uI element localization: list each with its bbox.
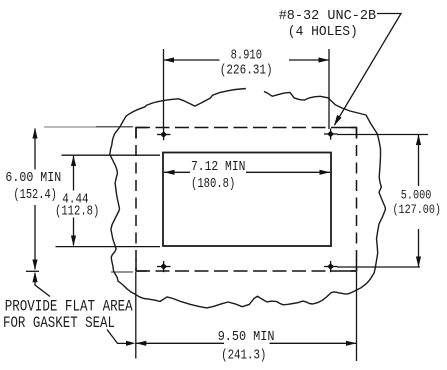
svg-text:(241.3): (241.3) <box>221 348 266 364</box>
svg-text:#8-32 UNC-2B: #8-32 UNC-2B <box>279 8 376 24</box>
svg-text:(112.8): (112.8) <box>55 204 99 220</box>
svg-text:5.000: 5.000 <box>401 187 432 202</box>
svg-text:(127.00): (127.00) <box>393 202 442 217</box>
svg-text:(226.31): (226.31) <box>220 63 273 79</box>
svg-text:8.910: 8.910 <box>231 48 262 64</box>
svg-text:FOR GASKET SEAL: FOR GASKET SEAL <box>3 314 115 332</box>
svg-text:(180.8): (180.8) <box>191 176 235 192</box>
svg-text:PROVIDE FLAT AREA: PROVIDE FLAT AREA <box>5 298 133 316</box>
svg-text:(4 HOLES): (4 HOLES) <box>288 24 358 40</box>
svg-text:(152.4): (152.4) <box>13 187 57 203</box>
svg-text:6.00 MIN: 6.00 MIN <box>5 170 61 186</box>
svg-text:7.12 MIN: 7.12 MIN <box>191 159 246 175</box>
svg-text:9.50 MIN: 9.50 MIN <box>218 329 275 345</box>
